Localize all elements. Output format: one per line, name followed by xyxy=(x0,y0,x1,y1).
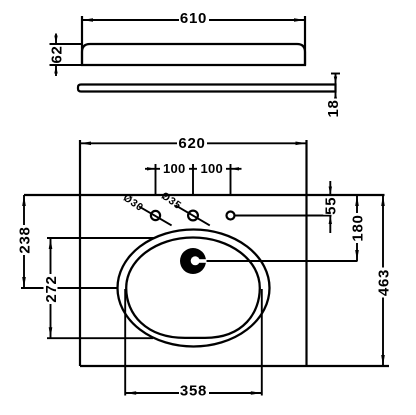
svg-text:272: 272 xyxy=(43,275,60,302)
svg-text:358: 358 xyxy=(180,382,207,399)
svg-text:100: 100 xyxy=(201,161,224,176)
svg-text:463: 463 xyxy=(375,269,392,296)
svg-text:180: 180 xyxy=(349,214,366,241)
svg-text:238: 238 xyxy=(16,226,33,253)
svg-text:610: 610 xyxy=(180,10,207,27)
svg-text:100: 100 xyxy=(163,161,186,176)
svg-text:620: 620 xyxy=(178,135,205,152)
svg-text:62: 62 xyxy=(48,45,65,63)
svg-text:18: 18 xyxy=(325,99,342,117)
svg-text:55: 55 xyxy=(323,197,340,215)
